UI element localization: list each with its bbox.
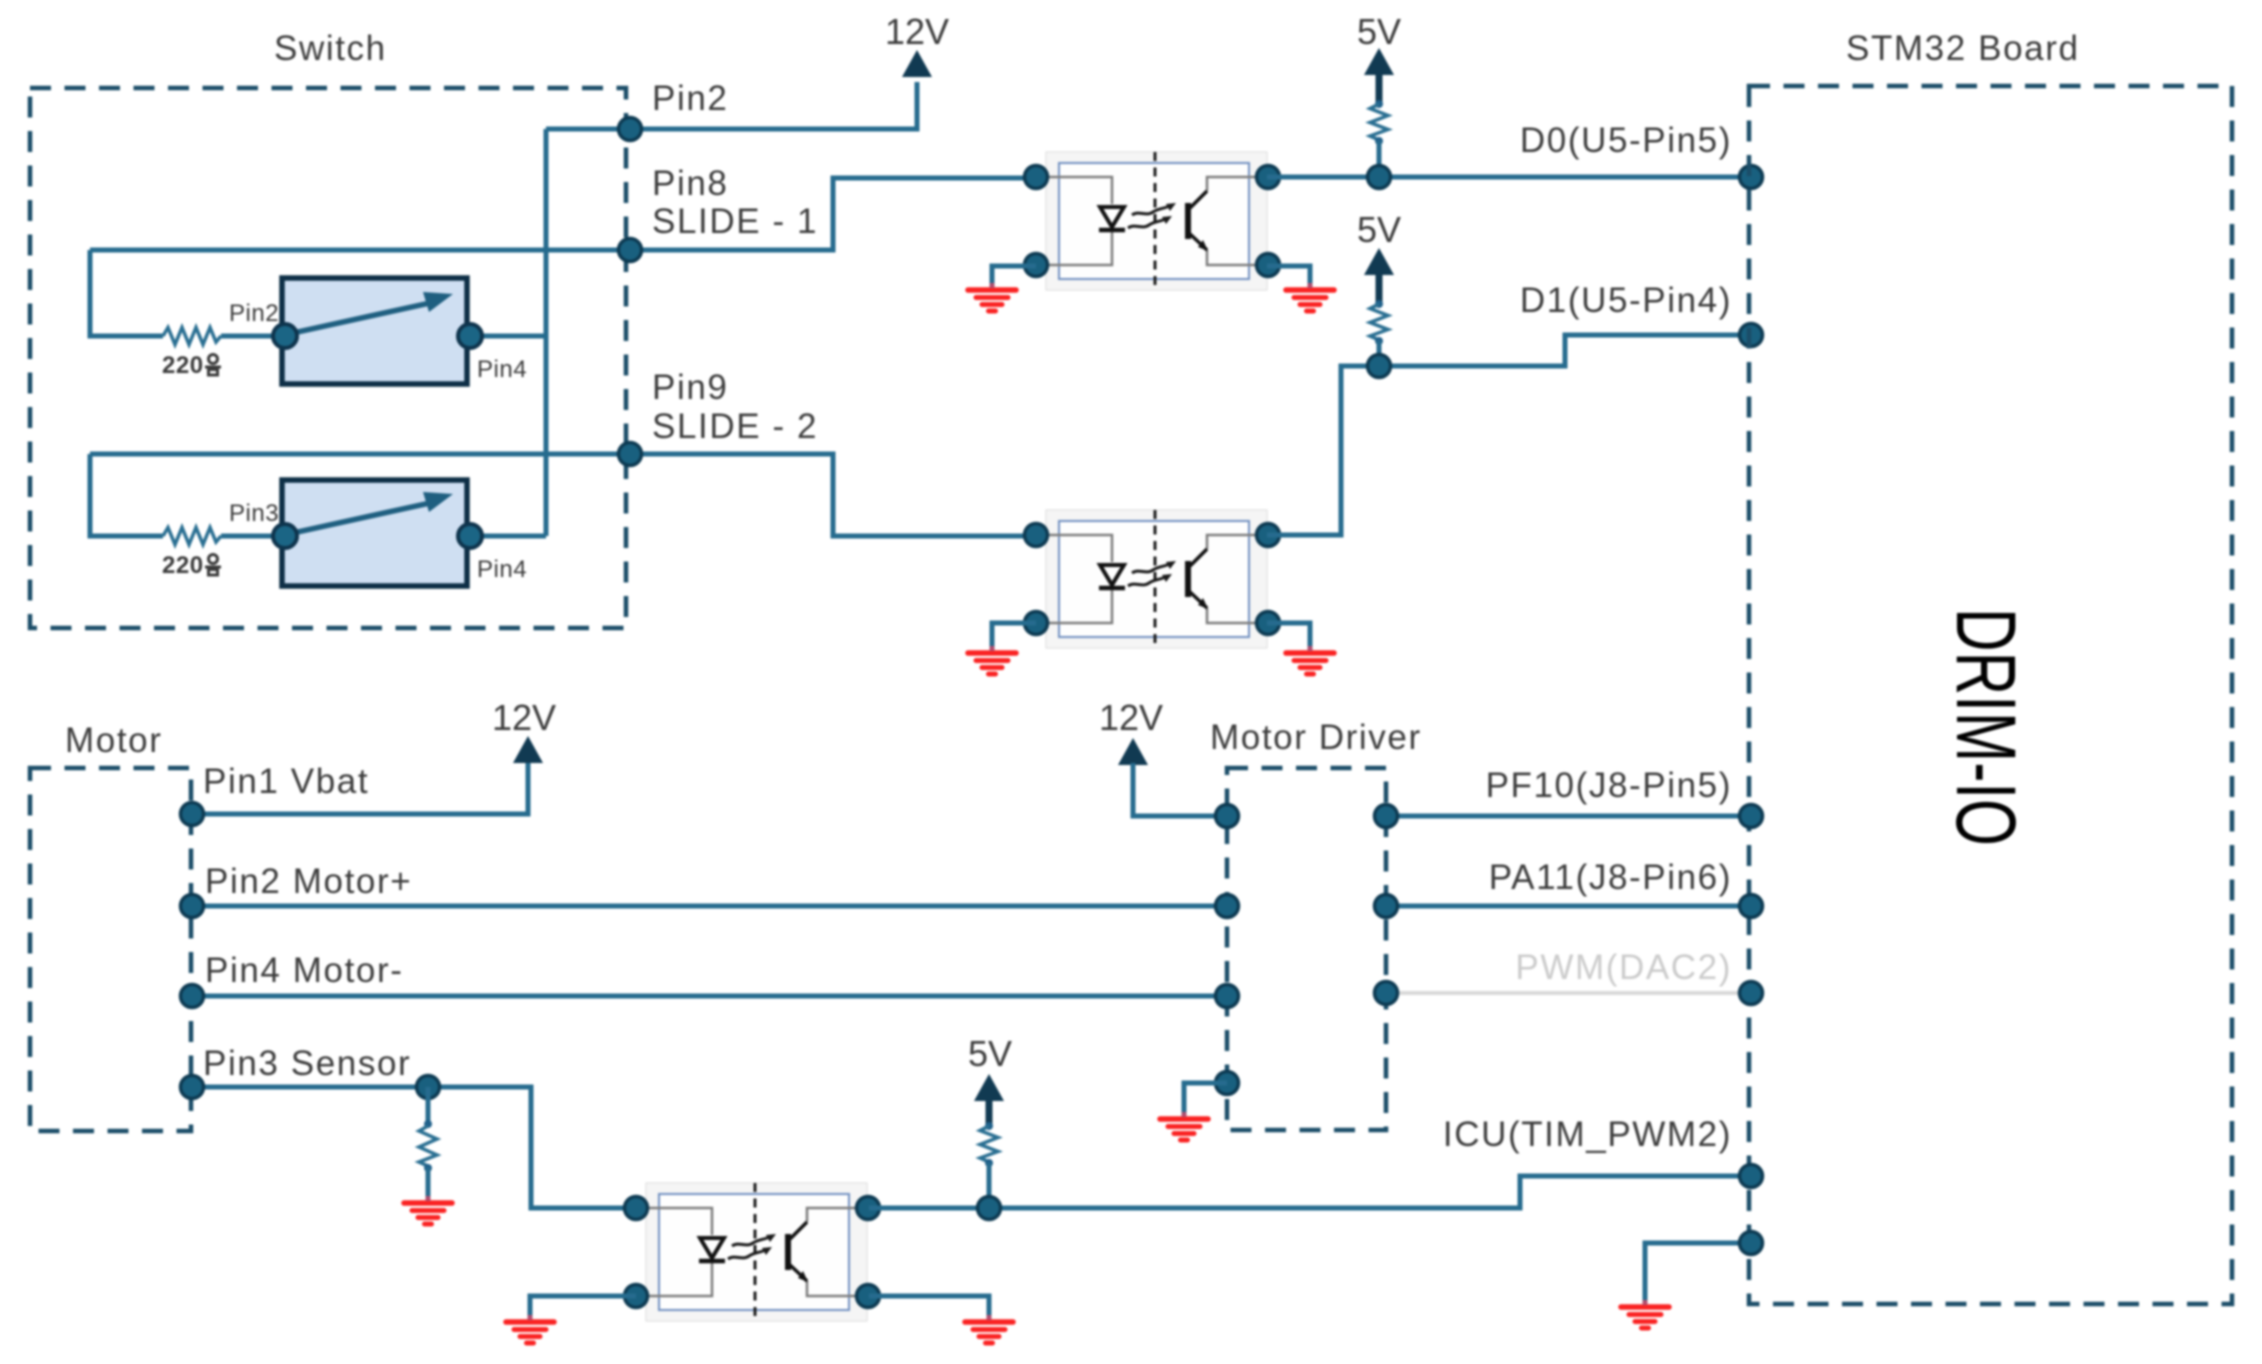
wire U2 emitter ground [1267,623,1310,648]
svg-text:SLIDE - 1: SLIDE - 1 [652,202,818,241]
wire R3 to D0 junction [1377,141,1382,177]
svg-text:12V: 12V [492,697,556,738]
wire Pin1 Vbat to 12V [192,762,528,814]
wire MD ground [1184,1083,1227,1114]
ground (U2 left) [968,646,1016,674]
slide switch SW2 [273,480,482,586]
wire U2 output riser to D1 junction [1267,366,1379,535]
node Pin1 [181,803,204,826]
resistor R2 220 ohm [163,528,221,545]
svg-text:Pin2: Pin2 [229,300,279,327]
ground (sensor pull-down) [404,1196,452,1224]
svg-text:Pin3 Sensor: Pin3 Sensor [203,1044,411,1083]
node PA11 at STM32 [1740,895,1763,918]
node Pin2 [619,118,642,141]
svg-text:Pin4: Pin4 [477,356,527,383]
wire Pin2 Motor+ [192,904,1227,909]
wire SLIDE-1 net [90,178,1036,250]
node MD Vin [1216,805,1239,828]
svg-text:Pin4: Pin4 [477,556,527,583]
svg-text:5V: 5V [1357,11,1401,52]
power 12V (Vbat) [513,736,543,763]
STM32 board box (dashed) [1749,86,2232,1304]
svg-text:PA11(J8-Pin6): PA11(J8-Pin6) [1489,858,1732,897]
ground (U2 right) [1286,646,1334,674]
ground (U1 left) [968,283,1016,311]
wire STM32 ground [1645,1243,1751,1302]
svg-text:Pin9: Pin9 [652,368,728,407]
slide switch SW1 [273,278,482,384]
motor connector box (dashed) [30,768,191,1131]
wire R5 to D1 junction [1377,341,1382,366]
svg-text:Pin8: Pin8 [652,164,728,203]
svg-text:12V: 12V [1099,697,1163,738]
svg-text:PWM(DAC2): PWM(DAC2) [1515,948,1732,987]
node MD PF10 [1375,805,1398,828]
svg-text:DRIM-IO: DRIM-IO [1939,608,2033,846]
node Pin8 / SLIDE-1 [619,239,642,262]
svg-text:Motor Driver: Motor Driver [1210,718,1422,757]
ground (U3 left) [506,1315,554,1343]
wire 12V to motor driver [1133,763,1227,816]
node MD Motor- [1216,985,1239,1008]
node D1 at STM32 [1740,324,1763,347]
resistor R6 pull-up [980,1122,998,1167]
power 5V pull-up (D0) [1364,48,1394,75]
wire SLIDE-2 net [90,454,1036,536]
wire SLIDE-1 to resistor branch [90,250,546,336]
node D0 junction [1368,166,1391,189]
svg-text:Motor: Motor [65,721,162,760]
power 5V pull-up (D1) [1364,248,1394,275]
node Pin4 [181,985,204,1008]
svg-text:Pin2: Pin2 [652,79,728,118]
wire PA11 [1386,904,1751,909]
ground (U3 right) [965,1315,1013,1343]
wire vertical bus x=546 [544,129,549,536]
svg-text:SLIDE - 2: SLIDE - 2 [652,407,818,446]
svg-text:PF10(J8-Pin5): PF10(J8-Pin5) [1486,766,1732,805]
node PF10 at STM32 [1740,805,1763,828]
resistor R3 pull-up [1370,100,1388,145]
wire Pin2 net to 12V [546,82,917,129]
svg-text:12V: 12V [885,11,949,52]
resistor R5 pull-up [1370,300,1388,345]
svg-text:Pin2 Motor+: Pin2 Motor+ [205,862,412,901]
optocoupler U2 [1025,510,1280,648]
wire PWM (inactive) [1386,991,1751,995]
wire PF10 [1386,814,1751,819]
svg-text:5V: 5V [968,1033,1012,1074]
wire D1 to STM32 [1379,335,1751,366]
node ICU junction [978,1197,1001,1220]
wire Pin3 Sensor to U3 [192,1087,636,1208]
resistor R1 220 ohm [163,328,221,345]
wire Pin4 Motor- [192,994,1227,999]
wire U2 LED ground [992,623,1036,648]
node ICU at STM32 [1740,1165,1763,1188]
wire U1 output to D0 [1267,175,1751,180]
svg-text:220: 220 [162,552,204,579]
wire SLIDE-2 to resistor branch [90,454,546,536]
wire U3 LED ground [530,1296,636,1317]
node D1 junction [1368,355,1391,378]
wire R6 to ICU junction [987,1163,992,1208]
node MD GND pin [1216,1072,1239,1095]
svg-text:Switch: Switch [274,29,387,68]
motor driver box (dashed) [1227,768,1386,1130]
node Pin3 [181,1076,204,1099]
ground (motor driver) [1160,1112,1208,1140]
ground (U1 right) [1286,283,1334,311]
node D0 at STM32 [1740,166,1763,189]
svg-text:Pin1 Vbat: Pin1 Vbat [203,762,369,801]
wire U1 emitter ground [1267,266,1310,285]
wire U3 output to ICU [869,1176,1751,1208]
svg-text:Pin4 Motor-: Pin4 Motor- [205,951,404,990]
node MD PWM [1375,982,1398,1005]
svg-text:ICU(TIM_PWM2): ICU(TIM_PWM2) [1443,1115,1732,1154]
node STM32 GND [1740,1232,1763,1255]
resistor R4 pull-down [426,1087,431,1122]
node PWM at STM32 [1740,982,1763,1005]
wire U3 emitter ground [869,1296,989,1317]
optocoupler U3 [625,1183,880,1321]
svg-text:D1(U5-Pin4): D1(U5-Pin4) [1520,281,1732,320]
node MD PA11 [1375,895,1398,918]
svg-text:Pin3: Pin3 [229,500,279,527]
power 12V symbol (top) [902,50,932,77]
node Pin2 [181,895,204,918]
node sensor junction [417,1076,440,1099]
power 12V (motor driver) [1118,738,1148,765]
svg-text:5V: 5V [1357,209,1401,250]
power 5V pull-up (sensor) [974,1074,1004,1101]
switch connector box (dashed) [30,88,626,628]
svg-text:STM32 Board: STM32 Board [1846,29,2080,68]
node Pin9 / SLIDE-2 [619,443,642,466]
node MD Motor+ [1216,895,1239,918]
optocoupler U1 [1025,152,1280,290]
svg-text:D0(U5-Pin5): D0(U5-Pin5) [1520,121,1732,160]
ground (STM32) [1621,1300,1669,1328]
svg-text:220: 220 [162,352,204,379]
wire U1 LED ground [992,266,1036,285]
